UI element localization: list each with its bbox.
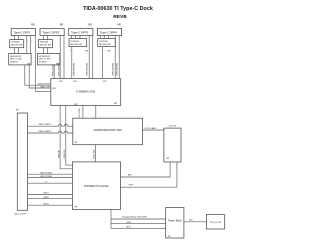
svg-text:USB2 DP/DM: USB2 DP/DM (113, 63, 115, 76)
label USB2 TOP (40, 86, 50, 88)
label AUX (128, 173, 133, 176)
label VBUS P3 rotated (86, 63, 88, 76)
label USB DP/DM1 (40, 172, 53, 174)
label NR port2 (60, 24, 64, 27)
svg-text:USB2 DP/DM: USB2 DP/DM (38, 84, 51, 86)
svg-text:NR: NR (117, 24, 121, 27)
wire UFP TX/RX2 to MUX with hops (28, 131, 73, 133)
label USB2 UP rotated (64, 149, 66, 159)
label VBUS (43, 203, 49, 205)
svg-text:Charging Power: Charging Power (122, 215, 137, 218)
svg-text:USB2 DP/DM: USB2 DP/DM (59, 63, 61, 76)
svg-text:SS MUX: SS MUX (10, 61, 19, 63)
label DP SL LANE (145, 127, 157, 130)
wire DFP2 USB2 to hub (59, 36, 61, 79)
svg-text:Type-C DFP2: Type-C DFP2 (42, 31, 59, 35)
title TIDA-00630 TI Type-C Dock (83, 6, 153, 12)
wire power brick to DC jack (184, 221, 207, 223)
svg-text:mini DP: mini DP (169, 125, 177, 127)
wire U3 to hub USB2 DP/DM (25, 65, 51, 85)
label USB3 P2 rotated (52, 63, 54, 76)
wire U7 to hub (102, 47, 104, 79)
svg-text:TPS65982 PD Controller: TPS65982 PD Controller (84, 185, 110, 188)
svg-text:DP SL LANE: DP SL LANE (145, 127, 157, 130)
label SBU1 (43, 193, 49, 195)
wire DFP2 CC to hub (63, 36, 65, 79)
wire MUX to miniDP DP lanes (142, 129, 164, 131)
wire DFP1 right pins to U3 (27, 36, 31, 54)
connector Type-C DFP3 (69, 29, 93, 36)
wire hub UP to PD CC2 (66, 106, 73, 166)
connector Type-C DFP1 (11, 29, 35, 36)
svg-text:NR: NR (60, 24, 64, 27)
svg-text:HUB UP: HUB UP (58, 150, 60, 158)
svg-text:TUSB8041 HUB: TUSB8041 HUB (76, 89, 95, 93)
svg-text:SS TX/RX: SS TX/RX (79, 107, 81, 117)
svg-text:USB2 UP: USB2 UP (64, 149, 66, 159)
power switch U4 TPS2546 (38, 40, 52, 48)
wire UFP CC to PD (28, 182, 73, 184)
svg-text:TPS2546: TPS2546 (70, 41, 80, 43)
svg-text:NR: NR (31, 24, 35, 27)
svg-text:MUX SEL: MUX SEL (93, 149, 95, 159)
mux U5 HD3SS2521 (37, 54, 59, 66)
connector Type-C DFP4 (97, 29, 121, 36)
wire PD GPIO to miniDP (121, 162, 177, 187)
svg-text:Power Brick: Power Brick (168, 219, 182, 222)
power switch U6 TPS2546 (69, 39, 87, 47)
svg-text:Type-C DFP4: Type-C DFP4 (100, 31, 117, 35)
svg-text:2A CHG SW: 2A CHG SW (99, 43, 111, 46)
svg-text:NR: NR (108, 51, 112, 53)
wire U3 to hub USB3 (29, 65, 51, 88)
label VBUS P4 rotated (117, 63, 119, 76)
label GPIO rail3 (126, 226, 131, 228)
label GPIO (128, 185, 133, 187)
svg-text:HD3SS2521: HD3SS2521 (10, 56, 22, 58)
wire PD AUX to miniDP (121, 162, 171, 177)
wire hub UP to PD CC1 (60, 106, 73, 169)
label NR port3 (88, 24, 92, 27)
label SS TX/RX rotated (79, 107, 81, 117)
svg-text:DP1: DP1 (59, 81, 63, 83)
wire DFP3 USB2 to hub (88, 36, 90, 79)
label USB TX/RX1 (38, 124, 52, 126)
svg-text:SS MUX: SS MUX (39, 61, 48, 63)
mux U8 HD3SS460 (73, 118, 143, 145)
label NR port4 (117, 24, 121, 27)
svg-text:USB DP/DM2: USB DP/DM2 (40, 176, 53, 178)
svg-text:DFP 2:1 SW: DFP 2:1 SW (39, 59, 51, 61)
wire UFP DP/DM1 to PD (28, 173, 73, 175)
svg-text:TPS2546: TPS2546 (11, 42, 21, 44)
svg-text:DP3: DP3 (103, 81, 107, 83)
wire DFP4 CC to hub (118, 36, 120, 79)
svg-text:4: 4 (70, 50, 71, 52)
wire PD to power rails (111, 210, 166, 229)
label USB2 P3 rotated (73, 63, 75, 76)
label 20V (189, 220, 193, 222)
label NR port1 (31, 24, 35, 27)
wire U4 to U5 stubs (43, 48, 47, 54)
svg-text:NR: NR (88, 24, 92, 27)
svg-text:TPS2546: TPS2546 (99, 41, 109, 43)
svg-text:20V_DC_IN: 20V_DC_IN (210, 222, 222, 224)
wire DFP1 to U2 stubs (15, 36, 19, 40)
wire UFP DP/DM2 to PD (28, 177, 73, 179)
wire DFP3 to U6 stubs (72, 36, 81, 39)
svg-text:Type-C DFP1: Type-C DFP1 (14, 31, 31, 35)
label USB2 P2 rotated (59, 63, 61, 76)
svg-text:2A CHG SW: 2A CHG SW (40, 44, 52, 47)
wire DFP2 to U4 stubs (43, 36, 47, 40)
wire U6 to hub (71, 47, 73, 79)
svg-text:GPIO: GPIO (126, 226, 131, 228)
wire UFP VBUS to PD (28, 204, 73, 206)
label CC (45, 181, 48, 183)
svg-text:GPIO: GPIO (126, 222, 131, 224)
label SBU2 (43, 197, 49, 199)
svg-text:NR: NR (85, 51, 89, 53)
power switch U7 TPS2546 (98, 39, 116, 47)
title REVB (113, 14, 127, 20)
hub U1 TUSB8041 (51, 79, 121, 106)
svg-text:DP2: DP2 (73, 81, 77, 83)
label USB DP/DM2 (40, 176, 53, 178)
wire DFP4 USB2 to hub (114, 36, 116, 79)
wire U5 to hub (53, 65, 55, 79)
svg-text:SBU2: SBU2 (43, 197, 49, 199)
label NR U6 (85, 51, 89, 53)
label MUX SEL rotated (93, 149, 95, 159)
svg-text:USB2 DP/DM: USB2 DP/DM (117, 63, 119, 76)
wire DFP4 to U7 stubs (100, 36, 109, 39)
wire DFP1 CC to hub (35, 36, 51, 92)
wire U2 to U3 stubs (15, 48, 19, 54)
connector Type-C DFP2 (40, 29, 64, 36)
svg-text:20V/12/5V: 20V/12/5V (137, 216, 147, 218)
svg-text:DP4: DP4 (52, 88, 56, 90)
mux U3 HD3SS2521 (9, 54, 31, 66)
svg-text:Type-C DFP3: Type-C DFP3 (71, 31, 88, 35)
svg-text:USB2 TOP: USB2 TOP (40, 86, 50, 88)
power switch U2 TPS2546 (10, 40, 24, 48)
label USB2 P4 rotated (113, 63, 115, 76)
wire UFP SBU2 to PD (28, 198, 73, 200)
svg-text:DFP 2:1 SW: DFP 2:1 SW (10, 59, 22, 61)
svg-text:Type-C UFP: Type-C UFP (14, 214, 27, 216)
wire UFP TX/RX1 to MUX with hops (28, 125, 73, 127)
wire UFP SBU1 to PD (28, 194, 73, 196)
svg-text:2A CHG SW: 2A CHG SW (11, 44, 23, 47)
pin labels tiny (28, 40, 100, 52)
connector J2 mini DP (164, 125, 181, 162)
svg-text:USB2 DP/DM: USB2 DP/DM (86, 63, 88, 76)
label USB TX/RX2 (38, 131, 52, 133)
svg-text:SBU1: SBU1 (43, 193, 49, 195)
connector J1 Type-C UFP (14, 110, 28, 216)
svg-text:VBUS: VBUS (43, 203, 49, 205)
label GPIO rail2 (126, 222, 131, 224)
label HUB UP rotated (58, 150, 60, 158)
wire hub UP SS to MUX (83, 106, 96, 119)
power brick PS1 (166, 207, 184, 238)
svg-text:USB TX/RX2: USB TX/RX2 (38, 131, 52, 133)
svg-text:USB3 TX/RX: USB3 TX/RX (52, 63, 54, 76)
svg-text:GPIO: GPIO (128, 185, 133, 187)
svg-text:HD3SS460 MUX SW: HD3SS460 MUX SW (93, 128, 121, 132)
svg-text:USB DP/DM1: USB DP/DM1 (40, 172, 53, 174)
pd controller U9 TPS65982 (72, 162, 120, 210)
svg-text:TIDA-00630 TI Type-C Dock: TIDA-00630 TI Type-C Dock (83, 6, 153, 12)
label NR U7 (108, 51, 112, 53)
svg-text:AUX: AUX (128, 173, 133, 176)
label USB2 DP/DM (38, 84, 51, 86)
connector J3 20V DC IN (206, 215, 224, 229)
svg-text:USB2 DP/DM: USB2 DP/DM (73, 63, 75, 76)
svg-text:TPS2546: TPS2546 (40, 42, 50, 44)
svg-text:4: 4 (99, 50, 100, 52)
svg-text:2: 2 (31, 40, 32, 42)
wire DFP3 CC to hub (92, 36, 94, 79)
wire MUX to PD (95, 145, 97, 162)
label Charging Power 20V/12V/5V (122, 215, 148, 218)
svg-text:USB TX/RX1: USB TX/RX1 (38, 124, 52, 126)
svg-text:HD3SS2521: HD3SS2521 (39, 56, 51, 58)
svg-text:NR: NR (114, 103, 118, 105)
svg-text:1: 1 (28, 40, 29, 42)
svg-text:2A CHG SW: 2A CHG SW (70, 43, 82, 46)
svg-text:REVB: REVB (113, 14, 127, 20)
